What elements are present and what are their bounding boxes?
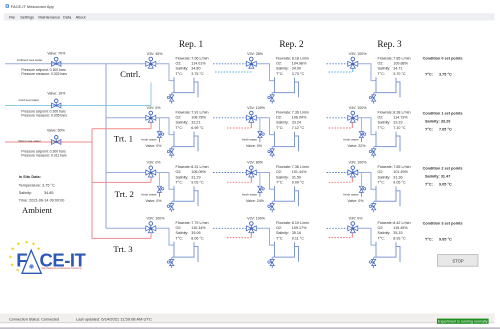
svg-text:109.17%: 109.17% [292, 226, 307, 230]
tank Cntrl Rep1 [172, 77, 194, 92]
svg-text:T°C:: T°C: [425, 182, 433, 186]
svg-text:O2:: O2: [378, 116, 384, 120]
dashed warm line Trt1 Rep2-Rep3 [329, 127, 352, 129]
svg-text:9.05 °C: 9.05 °C [439, 237, 452, 241]
outlet pipe Trt1 Rep2 [256, 118, 274, 135]
svg-text:Flowrate:: Flowrate: [378, 56, 393, 60]
svg-text:Salinity:: Salinity: [176, 231, 189, 235]
svg-text:Pressure measure: 0.311 bars: Pressure measure: 0.311 bars [21, 154, 67, 158]
drain stub Cntrl Rep3 [373, 93, 375, 95]
svg-text:Valve: 22%: Valve: 22% [348, 144, 367, 148]
overflow outlet Trt1 Rep3 [396, 136, 400, 151]
drain stub Trt2 Rep2 [271, 201, 273, 203]
dashed ambient line Trt3 Rep1-Rep2 [213, 227, 246, 229]
svg-text:Maintenance: Maintenance [38, 16, 60, 20]
dashed ambient line Cntrl Rep2-Rep3 [327, 63, 348, 65]
3-way valve Trt1 Rep2 [246, 115, 256, 122]
warm dashed riser Rep2 Trt2 [250, 177, 252, 182]
cold sea water pipe [5, 105, 151, 107]
warm dashed riser Rep2 Trt3 [250, 233, 252, 238]
svg-text:Condition 3 set points: Condition 3 set points [423, 221, 463, 225]
svg-text:T°C:: T°C: [276, 126, 283, 130]
outlet pipe Cntrl Rep1 [156, 64, 174, 81]
overflow outlet Trt2 Rep2 [295, 191, 299, 206]
3-way valve Cntrl Rep3 [348, 61, 358, 68]
svg-text:Salinity:: Salinity: [276, 175, 289, 179]
svg-text:T°C:: T°C: [176, 236, 183, 240]
tank Trt2 Rep2 [273, 186, 295, 201]
dashed ambient line Cntrl Rep1-Rep2 [213, 63, 246, 65]
svg-text:Salinity: 31.47: Salinity: 31.47 [425, 174, 450, 178]
svg-text:FACE-IT Mesocosm App: FACE-IT Mesocosm App [11, 4, 55, 9]
svg-text:Flowrate:: Flowrate: [276, 110, 291, 114]
svg-text:114.01%: 114.01% [191, 62, 206, 66]
drain stub Cntrl Rep1 [171, 93, 173, 95]
svg-text:7.06 L/min: 7.06 L/min [191, 56, 208, 60]
ambient branch Trt3 [106, 227, 146, 229]
drain valve Trt2 Rep3 [372, 204, 376, 210]
svg-text:T°C:: T°C: [425, 237, 433, 241]
drain valve Trt1 Rep1 [170, 149, 174, 155]
svg-text:T°C:: T°C: [425, 127, 433, 131]
tank Trt1 Rep3 [374, 131, 396, 146]
svg-text:Last updated: 6/14/2021 11:59:: Last updated: 6/14/2021 11:59:08 AM UTC [76, 316, 152, 321]
svg-text:T°C:: T°C: [378, 181, 385, 185]
dashed cold line Cntrl Rep1-Rep2 [215, 71, 252, 73]
fresh water valve Trt2 Rep3 [359, 186, 363, 192]
svg-text:33.33: 33.33 [393, 121, 402, 125]
overflow outlet Trt1 Rep2 [295, 136, 299, 151]
svg-text:Arctic Biodiversity and Ecosys: Arctic Biodiversity and Ecosystem Functi… [41, 267, 82, 270]
svg-text:Rep. 1: Rep. 1 [179, 40, 204, 50]
svg-text:Ambient sea water: Ambient sea water [17, 58, 43, 62]
svg-text:Salinity:: Salinity: [176, 121, 189, 125]
drain valve Trt1 Rep3 [372, 149, 376, 155]
fresh water valve Trt1 Rep2 [258, 132, 262, 138]
svg-text:V3V: 100%: V3V: 100% [247, 217, 266, 221]
drain stub Trt3 Rep1 [171, 257, 173, 259]
tank Trt3 Rep3 [374, 242, 396, 257]
warm manifold vertical [91, 129, 93, 239]
svg-text:Rep. 2: Rep. 2 [279, 40, 304, 50]
svg-text:Data: Data [63, 16, 72, 20]
warm riser Trt2 [150, 177, 152, 182]
svg-text:33.21: 33.21 [191, 121, 200, 125]
svg-text:Connection Status: Connected: Connection Status: Connected [9, 317, 59, 321]
3-way valve Trt1 Rep1 [146, 115, 156, 122]
svg-text:110.34%: 110.34% [191, 226, 206, 230]
valve ambient 70% [52, 61, 61, 66]
fresh water pipe Trt1 Rep1 [158, 118, 160, 131]
svg-text:Warm sea water: Warm sea water [18, 139, 40, 143]
svg-text:9.03 °C: 9.03 °C [191, 181, 204, 185]
svg-text:Salinity:: Salinity: [378, 175, 391, 179]
drain valve Cntrl Rep3 [372, 95, 376, 101]
svg-text:8.93 °C: 8.93 °C [393, 236, 406, 240]
svg-text:9.05 °C: 9.05 °C [393, 181, 406, 185]
dashed ambient line Trt2 Rep1-Rep2 [213, 172, 246, 174]
svg-text:O2:: O2: [176, 226, 182, 230]
svg-text:9.05 °C: 9.05 °C [439, 182, 452, 186]
svg-text:Rep. 3: Rep. 3 [377, 40, 402, 50]
svg-text:O2:: O2: [176, 170, 182, 174]
overflow outlet Cntrl Rep1 [194, 82, 198, 97]
svg-text:7.05 °C: 7.05 °C [439, 127, 452, 131]
svg-text:109.88%: 109.88% [393, 62, 408, 66]
svg-text:3.70 °C: 3.70 °C [393, 72, 406, 76]
svg-text:V3V: 100%: V3V: 100% [349, 52, 368, 56]
svg-text:104.98%: 104.98% [292, 62, 307, 66]
drain valve Trt3 Rep2 [270, 259, 274, 265]
drain valve Trt2 Rep1 [170, 204, 174, 210]
ambient manifold vertical [105, 64, 107, 229]
dashed warm line Trt3 Rep2-Rep3 [329, 237, 352, 239]
drain valve Cntrl Rep2 [270, 95, 274, 101]
menu bar band [4, 13, 495, 20]
title bar app icon [6, 4, 9, 7]
svg-text:35.15: 35.15 [393, 231, 402, 235]
fresh water valve Trt2 Rep1 [157, 186, 161, 192]
svg-text:Valve: 0%: Valve: 0% [146, 144, 163, 148]
overflow outlet Cntrl Rep2 [295, 82, 299, 97]
svg-text:Salinity:: Salinity: [378, 231, 391, 235]
svg-text:34.80: 34.80 [191, 67, 200, 71]
svg-text:T°C:: T°C: [176, 181, 183, 185]
svg-text:Valve: 0%: Valve: 0% [348, 199, 365, 203]
3-way valve Trt3 Rep2 [246, 226, 256, 233]
drain stub Cntrl Rep2 [271, 93, 273, 95]
overflow outlet Trt1 Rep1 [194, 136, 198, 151]
svg-text:Cntrl.: Cntrl. [120, 69, 140, 79]
drain valve Trt3 Rep1 [170, 259, 174, 265]
svg-text:T°C:: T°C: [378, 126, 385, 130]
tank Cntrl Rep3 [374, 77, 396, 92]
svg-text:fresh water: fresh water [343, 138, 358, 142]
svg-text:7.36 L/min: 7.36 L/min [292, 110, 309, 114]
svg-text:3.75 °C: 3.75 °C [191, 72, 204, 76]
valve cold 10% [52, 103, 61, 108]
svg-text:9.09 °C: 9.09 °C [292, 181, 305, 185]
outlet pipe Trt2 Rep1 [156, 173, 174, 190]
svg-text:fresh water: fresh water [141, 192, 156, 196]
tank Trt2 Rep3 [374, 186, 396, 201]
3-way valve Trt3 Rep3 [348, 226, 358, 233]
svg-text:T°C:: T°C: [378, 236, 385, 240]
svg-text:O2:: O2: [176, 62, 182, 66]
svg-text:Salinity:: Salinity: [276, 67, 289, 71]
svg-text:101.44%: 101.44% [292, 170, 307, 174]
svg-text:Salinity:: Salinity: [176, 175, 189, 179]
outlet pipe Cntrl Rep3 [358, 64, 376, 81]
svg-text:Valve: 0%: Valve: 0% [146, 199, 163, 203]
overflow outlet Trt3 Rep2 [295, 247, 299, 262]
svg-text:O2:: O2: [378, 62, 384, 66]
outlet pipe Trt3 Rep1 [156, 228, 174, 245]
ambient sea water pipe [5, 63, 146, 65]
svg-text:V3V: 0%: V3V: 0% [147, 161, 162, 165]
svg-text:108.78%: 108.78% [191, 116, 206, 120]
logo triangle A [22, 250, 41, 273]
svg-text:Salinity:: Salinity: [378, 67, 391, 71]
tank Cntrl Rep2 [273, 77, 295, 92]
svg-text:106.04%: 106.04% [292, 116, 307, 120]
svg-text:3.73 °C: 3.73 °C [292, 72, 305, 76]
warm dashed riser Rep3 Trt3 [351, 233, 353, 238]
svg-text:fresh water: fresh water [242, 192, 257, 196]
svg-text:7.91 L/min: 7.91 L/min [191, 110, 208, 114]
outlet pipe Trt2 Rep3 [358, 173, 376, 190]
svg-text:8.06 °C: 8.06 °C [191, 236, 204, 240]
fresh water pipe Trt2 Rep1 [158, 173, 160, 186]
fresh water pipe Trt2 Rep3 [360, 173, 362, 186]
status bar band [0, 314, 495, 323]
fresh water pipe Trt1 Rep2 [259, 118, 261, 131]
dashed warm line Trt3 Rep1-Rep2 [227, 237, 251, 239]
outlet pipe Cntrl Rep2 [256, 64, 274, 81]
drain stub Trt1 Rep3 [373, 147, 375, 149]
svg-text:Flowrate:: Flowrate: [176, 110, 191, 114]
svg-text:T°C:: T°C: [176, 126, 183, 130]
logo stars [25, 240, 29, 243]
svg-text:fresh water: fresh water [242, 138, 257, 142]
svg-text:File: File [9, 16, 15, 20]
svg-text:Valve: 0%: Valve: 0% [246, 144, 263, 148]
cold riser Rep3 Cntrl [352, 69, 354, 72]
svg-text:7.79 L/min: 7.79 L/min [191, 221, 208, 225]
3-way valve Trt2 Rep2 [246, 170, 256, 177]
svg-text:33.24: 33.24 [292, 121, 301, 125]
STOP button [438, 255, 479, 267]
status green badge [437, 319, 489, 324]
svg-text:35.06: 35.06 [191, 231, 200, 235]
svg-text:V3V: 100%: V3V: 100% [349, 106, 368, 110]
svg-text:T°C:: T°C: [378, 72, 385, 76]
svg-text:Valve: 60%: Valve: 60% [47, 129, 66, 133]
dashed warm line Trt2 Rep2-Rep3 [329, 181, 352, 183]
svg-text:Condition 1 set points: Condition 1 set points [423, 111, 463, 115]
svg-text:V3V: 45%: V3V: 45% [147, 52, 164, 56]
svg-text:31.36: 31.36 [393, 175, 402, 179]
dashed cold line Cntrl Rep2-Rep3 [329, 71, 353, 73]
outlet pipe Trt2 Rep2 [256, 173, 274, 190]
svg-text:Flowrate:: Flowrate: [276, 56, 291, 60]
svg-text:V3V: 89%: V3V: 89% [247, 161, 264, 165]
svg-text:O2:: O2: [176, 116, 182, 120]
svg-text:Cold sea water: Cold sea water [18, 98, 39, 102]
overflow outlet Trt2 Rep3 [396, 191, 400, 206]
svg-text:O2:: O2: [378, 170, 384, 174]
dashed ambient line Trt1 Rep2-Rep3 [327, 117, 348, 119]
svg-text:Salinity:: Salinity: [276, 121, 289, 125]
dashed warm line Trt1 Rep1-Rep2 [227, 127, 251, 129]
svg-text:8.38 L/min: 8.38 L/min [393, 110, 410, 114]
svg-text:Salinity:: Salinity: [176, 67, 189, 71]
svg-text:Flowrate:: Flowrate: [378, 110, 393, 114]
svg-text:Salinity: 33.29: Salinity: 33.29 [425, 119, 450, 123]
drain valve Trt3 Rep3 [372, 259, 376, 265]
outlet pipe Trt3 Rep2 [256, 228, 274, 245]
svg-text:V3V: 0%: V3V: 0% [147, 106, 162, 110]
drain valve Cntrl Rep1 [170, 95, 174, 101]
overflow outlet Trt3 Rep3 [396, 247, 400, 262]
svg-text:7.12 °C: 7.12 °C [292, 126, 305, 130]
dashed ambient line Trt3 Rep2-Rep3 [327, 227, 348, 229]
svg-text:Flowrate:: Flowrate: [276, 221, 291, 225]
svg-text:In Situ Data:: In Situ Data: [19, 175, 41, 179]
svg-text:Flowrate:: Flowrate: [176, 165, 191, 169]
3-way valve Trt2 Rep1 [146, 170, 156, 177]
svg-text:Valve: 10%: Valve: 10% [47, 91, 66, 95]
overflow outlet Trt2 Rep1 [194, 191, 198, 206]
svg-text:Temperature: 3.75 °C: Temperature: 3.75 °C [19, 183, 55, 187]
fresh water valve Trt1 Rep3 [359, 132, 363, 138]
svg-text:Flowrate:: Flowrate: [276, 165, 291, 169]
status bar border [0, 322, 495, 324]
svg-text:V3V: 100%: V3V: 100% [349, 161, 368, 165]
outlet pipe Trt3 Rep3 [358, 228, 376, 245]
svg-text:8.18 L/min: 8.18 L/min [292, 56, 309, 60]
3-way valve Cntrl Rep1 [146, 61, 156, 68]
overflow outlet Trt3 Rep1 [194, 247, 198, 262]
svg-text:Trt. 2: Trt. 2 [115, 189, 134, 199]
svg-text:Ambient: Ambient [22, 205, 53, 215]
ambient branch Trt2 [106, 172, 146, 174]
svg-text:T°C:: T°C: [276, 181, 283, 185]
svg-text:O2:: O2: [378, 226, 384, 230]
svg-text:V3V: 100%: V3V: 100% [247, 106, 266, 110]
fresh water pipe Trt2 Rep2 [259, 173, 261, 186]
svg-text:V3V: 28%: V3V: 28% [247, 52, 264, 56]
warm riser Trt3 [150, 233, 152, 238]
svg-text:8.31 L/min: 8.31 L/min [191, 165, 208, 169]
svg-text:114.73%: 114.73% [393, 116, 408, 120]
warm branch Trt1 [92, 128, 151, 130]
svg-text:Salinity:: Salinity: [19, 191, 32, 195]
drain stub Trt1 Rep1 [171, 147, 173, 149]
svg-text:Flowrate:: Flowrate: [378, 221, 393, 225]
svg-text:Flowrate:: Flowrate: [378, 165, 393, 169]
warm branch Trt2 [92, 181, 151, 183]
svg-text:About: About [76, 16, 87, 20]
tank Trt1 Rep1 [172, 131, 194, 146]
svg-text:fresh water: fresh water [141, 138, 156, 142]
svg-text:V3V: 0%: V3V: 0% [349, 217, 364, 221]
svg-text:T°C:: T°C: [425, 72, 433, 76]
ambient branch Trt1 [106, 117, 146, 119]
overflow outlet Cntrl Rep3 [396, 82, 400, 97]
warm dashed riser Rep2 Trt1 [250, 123, 252, 128]
svg-text:Time: 2021-06-14 09:00:00: Time: 2021-06-14 09:00:00 [19, 199, 65, 203]
dashed warm line Trt2 Rep1-Rep2 [227, 181, 251, 183]
warm dashed riser Rep3 Trt2 [351, 177, 353, 182]
svg-text:Pressure measure: 0.302 bars: Pressure measure: 0.302 bars [21, 72, 67, 76]
window bottom edge [0, 327, 500, 329]
svg-text:7.65 L/min: 7.65 L/min [393, 165, 410, 169]
drain valve Trt1 Rep2 [270, 149, 274, 155]
svg-text:Trt. 1: Trt. 1 [114, 133, 133, 143]
fresh water pipe Trt1 Rep3 [360, 118, 362, 131]
svg-text:106.06%: 106.06% [191, 170, 206, 174]
svg-text:Salinity:: Salinity: [378, 121, 391, 125]
warm dashed riser Rep3 Trt1 [351, 123, 353, 128]
tank Trt1 Rep2 [273, 131, 295, 146]
svg-text:❅: ❅ [28, 263, 34, 271]
svg-text:T°C:: T°C: [276, 72, 283, 76]
svg-text:Valve: 24%: Valve: 24% [246, 199, 265, 203]
svg-text:35.16: 35.16 [292, 231, 301, 235]
svg-text:Flowrate:: Flowrate: [176, 221, 191, 225]
svg-text:115.45%: 115.45% [393, 226, 408, 230]
svg-text:STOP: STOP [452, 259, 464, 264]
tank Trt3 Rep2 [273, 242, 295, 257]
tank Trt3 Rep1 [172, 242, 194, 257]
svg-text:Salinity:: Salinity: [276, 231, 289, 235]
warm branch Trt3 [92, 237, 151, 239]
3-way valve Trt1 Rep3 [348, 115, 358, 122]
cold riser to Cntrl row [150, 83, 152, 106]
warm riser Trt1 [150, 122, 152, 129]
svg-text:34.85: 34.85 [44, 191, 54, 195]
3-way valve Trt2 Rep3 [348, 170, 358, 177]
fresh water valve Trt1 Rep1 [157, 132, 161, 138]
svg-text:3.75 °C: 3.75 °C [439, 72, 452, 76]
tank Trt2 Rep1 [172, 186, 194, 201]
svg-text:Pressure measure: 0.305 bars: Pressure measure: 0.305 bars [21, 114, 67, 118]
svg-text:O2:: O2: [276, 116, 282, 120]
svg-text:Settings: Settings [20, 16, 34, 20]
outlet pipe Trt1 Rep3 [358, 118, 376, 135]
svg-text:V3V: 100%: V3V: 100% [147, 217, 166, 221]
svg-text:6.99 °C: 6.99 °C [191, 126, 204, 130]
svg-text:fresh water: fresh water [343, 192, 358, 196]
svg-text:Condition 0 set points: Condition 0 set points [423, 56, 463, 60]
valve warm 60% [52, 140, 61, 145]
svg-text:T°C:: T°C: [276, 236, 283, 240]
fresh water valve Trt2 Rep2 [258, 186, 262, 192]
svg-text:9.11 °C: 9.11 °C [292, 236, 304, 240]
drain valve Trt2 Rep2 [270, 204, 274, 210]
svg-text:7.85 L/min: 7.85 L/min [393, 56, 410, 60]
dashed ambient line Trt2 Rep2-Rep3 [327, 172, 348, 174]
svg-text:Valve: 70%: Valve: 70% [47, 51, 66, 55]
svg-text:34.71: 34.71 [393, 67, 402, 71]
svg-text:O2:: O2: [276, 62, 282, 66]
drain stub Trt3 Rep2 [271, 257, 273, 259]
svg-text:8.42 L/min: 8.42 L/min [393, 221, 410, 225]
svg-text:31.50: 31.50 [292, 175, 301, 179]
svg-text:7.10 °C: 7.10 °C [393, 126, 406, 130]
svg-text:7.36 L/min: 7.36 L/min [292, 165, 309, 169]
3-way valve Cntrl Rep2 [246, 61, 256, 68]
svg-text:31.29: 31.29 [191, 175, 200, 179]
svg-text:O2:: O2: [276, 226, 282, 230]
svg-text:Experiment is running normally: Experiment is running normally [438, 320, 488, 324]
svg-text:Condition 2 set points: Condition 2 set points [423, 166, 463, 170]
svg-text:8.19 L/min: 8.19 L/min [292, 221, 309, 225]
dashed ambient line Trt1 Rep1-Rep2 [213, 117, 246, 119]
svg-text:O2:: O2: [276, 170, 282, 174]
svg-text:Flowrate:: Flowrate: [176, 56, 191, 60]
drain stub Trt2 Rep3 [373, 201, 375, 203]
drain stub Trt2 Rep1 [171, 201, 173, 203]
svg-text:Trt. 3: Trt. 3 [113, 244, 133, 254]
svg-text:T°C:: T°C: [176, 72, 183, 76]
svg-text:34.90: 34.90 [292, 67, 301, 71]
outlet pipe Trt1 Rep1 [156, 118, 174, 135]
3-way valve Trt3 Rep1 [146, 226, 156, 233]
drain stub Trt1 Rep2 [271, 147, 273, 149]
svg-text:101.49%: 101.49% [393, 170, 408, 174]
